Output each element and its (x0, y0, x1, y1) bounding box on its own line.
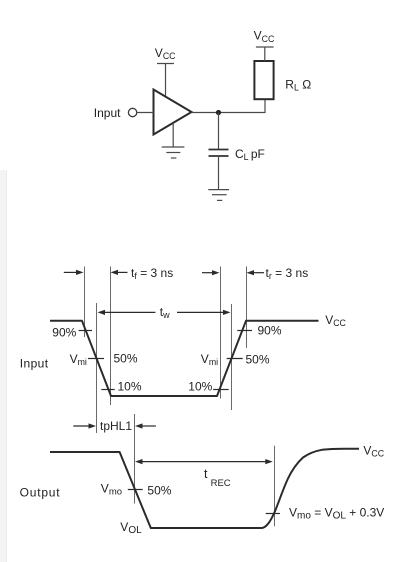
arrow tpHL1 out (135, 423, 156, 428)
label 90% right (258, 324, 282, 338)
label tw (160, 305, 170, 320)
arrow tf leadin (64, 270, 84, 275)
svg-text:RL Ω: RL Ω (285, 78, 311, 93)
label 50% output (147, 483, 171, 497)
svg-text:VOL: VOL (120, 520, 142, 536)
ground (buffer) (162, 147, 185, 158)
label Vcc (output waveform) (363, 443, 384, 458)
guide line input rise 50% (L4) (231, 304, 233, 410)
label 90% left (52, 325, 76, 339)
svg-text:90%: 90% (52, 325, 76, 339)
svg-text:Vmo = VOL + 0.3V: Vmo = VOL + 0.3V (289, 505, 384, 521)
arrow tREC span (135, 459, 273, 464)
arrow tr leadin (202, 270, 220, 275)
svg-text:Vmi: Vmi (70, 352, 87, 367)
label tr = 3 ns (266, 266, 309, 281)
power Vcc label (driver) (155, 46, 176, 61)
label RL ohm (285, 78, 311, 93)
svg-text:Output: Output (20, 485, 61, 499)
label CL pF (235, 147, 265, 162)
tick Vmi left (88, 358, 104, 360)
label tREC (204, 467, 231, 489)
guide line input fall 50% (L3) (96, 303, 98, 433)
svg-text:50%: 50% (246, 353, 270, 367)
power rail Vcc (driver) (157, 64, 174, 98)
arrow tpHL1 leadin (73, 423, 96, 428)
svg-text:VCC: VCC (254, 29, 275, 44)
label Input (circuit) (94, 106, 121, 120)
svg-text:90%: 90% (258, 324, 282, 338)
guide line tf right (L2) (110, 267, 112, 406)
svg-text:VCC: VCC (325, 313, 346, 328)
arrow tw span (98, 310, 231, 315)
label 10% right (188, 380, 212, 394)
svg-text:CL pF: CL pF (235, 147, 265, 162)
label VOL (120, 520, 142, 536)
svg-text:tw: tw (160, 305, 170, 320)
label tpHL1 (100, 419, 132, 433)
tick 50% output (128, 489, 143, 491)
arrow tr out (247, 270, 265, 275)
label 50% right (246, 353, 270, 367)
label Vmo left (101, 482, 122, 498)
buffer U1 triangle (154, 90, 192, 135)
label 50% left (114, 352, 138, 366)
wire input to buffer (137, 112, 154, 114)
guide line input rise 90% (L6) (246, 267, 248, 349)
svg-text:10%: 10% (118, 380, 142, 394)
power Vcc label (RL) (254, 29, 275, 44)
input terminal circle (128, 108, 136, 116)
svg-text:Vmi: Vmi (201, 352, 218, 367)
tick 90% left (79, 330, 92, 332)
arrow tf out (111, 270, 128, 275)
tick 10% left (101, 389, 114, 391)
wire resistor to Vcc (264, 47, 266, 61)
svg-text:REC: REC (211, 478, 231, 489)
guide line input rise 10% (L5) (220, 267, 222, 399)
label Vmi left (70, 352, 87, 367)
label tf = 3 ns (131, 266, 173, 281)
resistor RL (254, 61, 273, 99)
guide line tf left (L1) (84, 267, 86, 338)
wire node up to resistor (264, 99, 266, 113)
svg-text:50%: 50% (114, 352, 138, 366)
svg-text:Input: Input (94, 106, 121, 120)
wire buffer to ground (172, 123, 174, 147)
guide line tpHL1 right (L7) (134, 414, 136, 504)
svg-text:Input: Input (20, 357, 49, 371)
svg-text:VCC: VCC (155, 46, 176, 61)
svg-text:Vmo: Vmo (101, 482, 122, 498)
tick Vmi right (227, 358, 243, 360)
wire node to capacitor (218, 113, 220, 150)
svg-text:10%: 10% (188, 380, 212, 394)
label Vmo = VOL + 0.3V (289, 505, 384, 521)
svg-text:tpHL1: tpHL1 (100, 419, 132, 433)
label Output (20, 485, 61, 499)
input waveform (50, 321, 319, 396)
wire buffer output (192, 112, 266, 114)
label Vmi right (201, 352, 218, 367)
svg-text:VCC: VCC (363, 443, 384, 458)
left edge faint strip (0, 170, 7, 562)
wire capacitor to ground (218, 156, 220, 190)
node junction dot (216, 110, 221, 115)
tick Vmo right (266, 513, 280, 515)
tick 10% right (213, 389, 229, 391)
svg-text:tf = 3 ns: tf = 3 ns (131, 266, 173, 281)
output waveform (50, 449, 359, 528)
svg-text:t: t (204, 467, 208, 481)
label Input (waveform) (20, 357, 49, 371)
tick 90% right (237, 330, 252, 332)
capacitor CL (209, 150, 229, 157)
svg-text:50%: 50% (147, 483, 171, 497)
ground (capacitor) (208, 190, 229, 201)
label Vcc (input waveform) (325, 313, 346, 328)
svg-text:tr = 3 ns: tr = 3 ns (266, 266, 309, 281)
label 10% left (118, 380, 142, 394)
power rail Vcc (RL) (256, 46, 274, 48)
guide line tREC right (L8) (274, 446, 276, 527)
